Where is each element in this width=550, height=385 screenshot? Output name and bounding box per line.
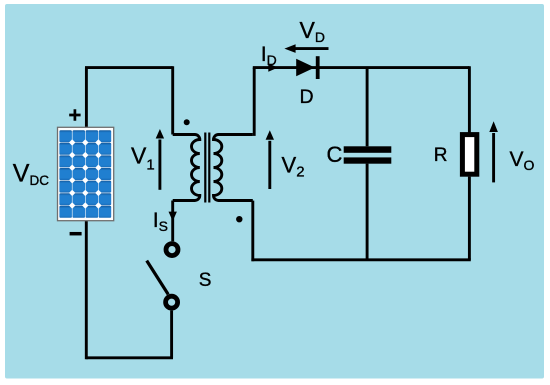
svg-text:C: C — [327, 142, 343, 167]
wire: top rail to diode and output — [253, 66, 470, 69]
wire: secondary top vertical up — [253, 68, 256, 136]
plus terminal mark — [69, 109, 80, 120]
voltage arrow VD (pointing left) — [293, 47, 329, 50]
capacitor C top plate — [344, 146, 392, 153]
voltage arrow VO — [492, 133, 495, 182]
wire: primary bottom lead with IS arrow — [171, 201, 174, 242]
transformer primary winding L1 — [173, 135, 200, 201]
svg-text:R: R — [434, 145, 448, 166]
polarity dot secondary — [236, 216, 242, 222]
wire: top-left horizontal rail — [85, 66, 173, 69]
voltage arrow V1 — [158, 140, 161, 190]
current arrow IS head — [169, 212, 177, 222]
wire: panel bottom lead — [85, 220, 88, 359]
transformer core line 2 — [208, 133, 210, 203]
wire: primary top vertical drop — [171, 66, 174, 134]
transformer secondary winding L2 — [214, 135, 253, 201]
wire: capacitor top lead — [366, 68, 369, 147]
wire: bottom-left rail — [86, 356, 173, 359]
diode D — [296, 59, 315, 76]
resistor R body — [462, 135, 476, 175]
transformer core line 1 — [204, 133, 206, 203]
wire: bottom output rail — [251, 258, 470, 261]
wire: right vertical above resistor — [468, 66, 471, 134]
wire: panel top to top-left corner — [85, 68, 88, 128]
solar panel VDC — [58, 127, 114, 220]
svg-text:S: S — [199, 270, 212, 291]
switch S top contact — [166, 244, 178, 256]
switch S bottom contact — [166, 296, 178, 308]
voltage arrow V2 — [268, 141, 271, 189]
minus terminal mark — [70, 232, 82, 236]
diode cathode bar — [316, 56, 320, 79]
wire: switch to bottom rail — [170, 311, 173, 358]
switch S blade — [147, 261, 169, 295]
wire: capacitor bottom lead — [366, 164, 369, 260]
capacitor C bottom plate — [344, 157, 392, 163]
svg-text:D: D — [300, 86, 314, 108]
current arrow ID head — [268, 63, 278, 71]
polarity dot primary — [184, 119, 190, 125]
wire: right vertical below resistor — [468, 177, 471, 260]
wire: secondary bottom vertical — [251, 201, 254, 262]
